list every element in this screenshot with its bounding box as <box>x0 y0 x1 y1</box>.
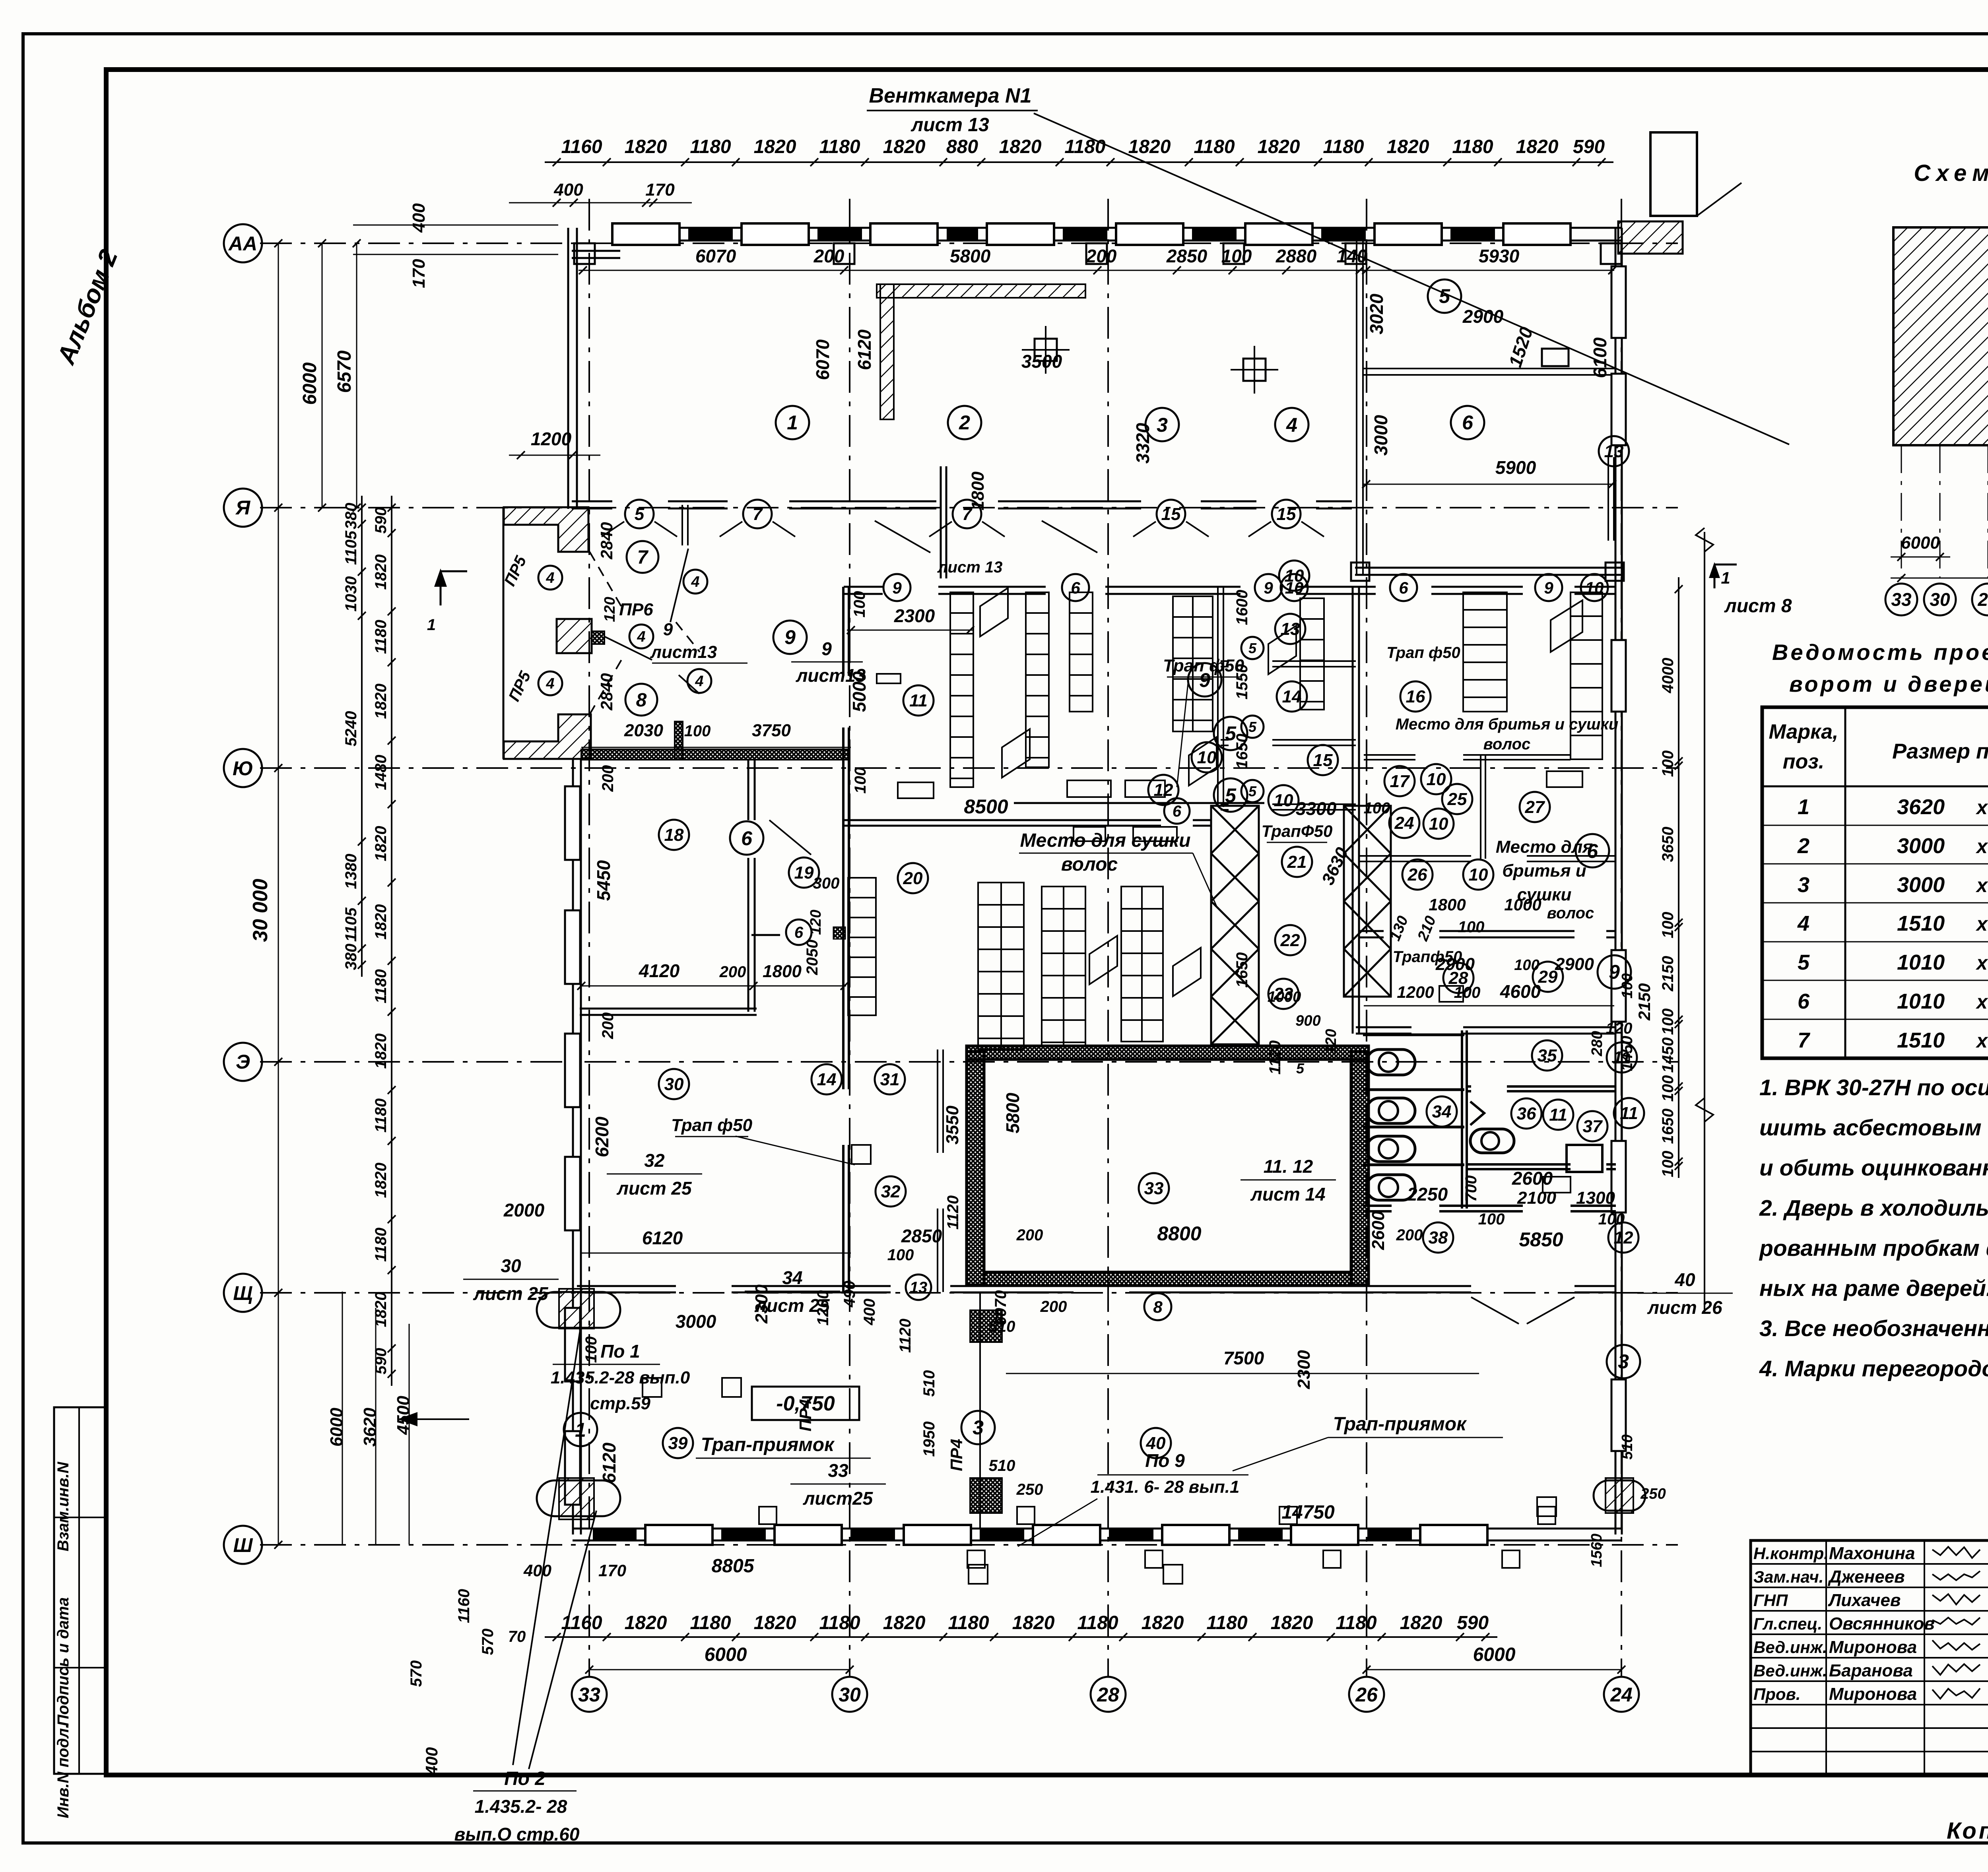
svg-text:1820: 1820 <box>754 1612 796 1633</box>
svg-text:28: 28 <box>1097 1684 1119 1706</box>
svg-text:8: 8 <box>1153 1298 1163 1316</box>
svg-text:7: 7 <box>753 504 763 524</box>
floor plan: entrance vestibule <box>504 507 588 552</box>
svg-text:2850: 2850 <box>1166 246 1208 266</box>
svg-text:1.435.2- 28: 1.435.2- 28 <box>475 1796 567 1817</box>
svg-text:8500: 8500 <box>964 795 1008 818</box>
svg-text:4: 4 <box>546 675 554 692</box>
svg-text:2000: 2000 <box>503 1200 545 1220</box>
svg-text:x: x <box>1975 991 1988 1013</box>
svg-text:14: 14 <box>1282 687 1302 706</box>
svg-text:590: 590 <box>372 507 390 534</box>
svg-text:5450: 5450 <box>593 860 614 901</box>
svg-text:x: x <box>1975 913 1988 935</box>
svg-text:1.431. 6- 28 вып.1: 1.431. 6- 28 вып.1 <box>1091 1477 1240 1497</box>
svg-text:10: 10 <box>1285 566 1304 586</box>
svg-text:1820: 1820 <box>754 136 796 157</box>
svg-text:1820: 1820 <box>1128 136 1171 157</box>
svg-text:3: 3 <box>1157 414 1168 436</box>
svg-text:Ш: Ш <box>233 1534 253 1556</box>
svg-text:1180: 1180 <box>819 1612 860 1633</box>
svg-text:9: 9 <box>821 638 832 659</box>
floor plan: dimensions and labels <box>553 158 561 166</box>
svg-text:570: 570 <box>479 1629 497 1655</box>
svg-text:34: 34 <box>782 1267 802 1288</box>
svg-text:12: 12 <box>1154 780 1173 800</box>
svg-text:5800: 5800 <box>950 246 991 266</box>
svg-text:1180: 1180 <box>819 136 860 157</box>
svg-text:лист 25: лист 25 <box>616 1178 692 1199</box>
svg-text:36: 36 <box>1517 1104 1536 1123</box>
svg-text:6: 6 <box>1071 578 1080 597</box>
svg-text:10: 10 <box>1197 748 1217 767</box>
svg-text:3620: 3620 <box>1897 795 1945 819</box>
svg-text:Инв.N подл.: Инв.N подл. <box>54 1724 72 1818</box>
svg-text:1820: 1820 <box>372 1163 390 1198</box>
svg-text:1: 1 <box>787 411 798 434</box>
svg-text:3320: 3320 <box>1132 423 1153 464</box>
svg-text:2. Дверь в холодильной каме: 2. Дверь в холодильной камере крепить к … <box>1759 1195 1988 1221</box>
svg-text:120: 120 <box>1606 1020 1633 1037</box>
svg-text:6: 6 <box>1173 803 1182 820</box>
svg-text:6000: 6000 <box>1901 533 1940 553</box>
svg-text:31: 31 <box>880 1070 900 1089</box>
svg-text:1820: 1820 <box>883 1612 926 1633</box>
svg-text:100: 100 <box>1659 751 1677 777</box>
svg-text:33: 33 <box>1891 589 1912 610</box>
svg-text:1820: 1820 <box>372 1292 390 1327</box>
svg-text:Трап ф50: Трап ф50 <box>1386 644 1460 662</box>
svg-text:5930: 5930 <box>1479 246 1520 266</box>
svg-text:490: 490 <box>841 1281 858 1308</box>
svg-text:1950: 1950 <box>920 1422 938 1457</box>
svg-text:2: 2 <box>1797 834 1809 858</box>
svg-text:280: 280 <box>1589 1031 1606 1056</box>
svg-text:Размер проема, мм: Размер проема, мм <box>1892 739 1988 763</box>
svg-text:По 2: По 2 <box>504 1768 546 1789</box>
svg-text:Н.контр.: Н.контр. <box>1753 1544 1829 1563</box>
svg-text:6120: 6120 <box>599 1442 619 1483</box>
svg-text:30: 30 <box>664 1075 684 1094</box>
svg-text:9: 9 <box>784 626 796 648</box>
svg-text:11. 12: 11. 12 <box>1264 1156 1313 1177</box>
svg-text:3000: 3000 <box>1897 834 1945 858</box>
svg-text:x: x <box>1975 952 1988 974</box>
svg-text:9: 9 <box>1544 578 1553 597</box>
svg-text:Место для бритья и сушки: Место для бритья и сушки <box>1396 716 1619 733</box>
svg-text:ТрапФ50: ТрапФ50 <box>1262 822 1333 840</box>
svg-text:x: x <box>1975 1030 1988 1052</box>
svg-text:5240: 5240 <box>342 711 360 747</box>
svg-text:Ю: Ю <box>233 757 253 780</box>
svg-text:лист 14: лист 14 <box>1250 1184 1325 1205</box>
svg-text:100: 100 <box>1478 1210 1505 1228</box>
svg-text:10: 10 <box>1274 791 1293 810</box>
svg-text:5: 5 <box>1439 285 1450 307</box>
svg-text:2100: 2100 <box>1517 1188 1556 1208</box>
svg-text:13: 13 <box>1604 442 1624 461</box>
svg-text:лист 26: лист 26 <box>1647 1297 1722 1318</box>
svg-text:лист 25: лист 25 <box>754 1295 830 1316</box>
svg-text:2840: 2840 <box>597 673 616 710</box>
svg-text:Венткамера N1: Венткамера N1 <box>869 84 1031 107</box>
svg-text:Вед.инж.: Вед.инж. <box>1753 1661 1827 1680</box>
svg-text:2300: 2300 <box>1294 1350 1314 1389</box>
svg-text:400: 400 <box>422 1747 441 1775</box>
svg-text:2880: 2880 <box>1276 246 1317 266</box>
svg-text:поз.: поз. <box>1783 750 1825 773</box>
svg-text:Марка,: Марка, <box>1769 720 1839 743</box>
floor plan: grid axes <box>224 224 262 262</box>
svg-text:лист 25: лист 25 <box>473 1283 549 1304</box>
svg-text:1820: 1820 <box>1387 136 1429 157</box>
svg-text:70: 70 <box>508 1628 526 1645</box>
svg-text:37: 37 <box>1583 1117 1603 1136</box>
svg-text:ных на раме дверей.: ных на раме дверей. <box>1759 1276 1988 1301</box>
svg-text:11: 11 <box>1549 1105 1567 1125</box>
svg-text:24: 24 <box>1610 1684 1633 1706</box>
svg-text:6: 6 <box>1462 411 1474 434</box>
svg-text:1180: 1180 <box>372 1228 390 1262</box>
svg-text:1180: 1180 <box>690 136 731 157</box>
svg-text:24: 24 <box>1394 813 1414 833</box>
svg-text:4600: 4600 <box>1500 981 1541 1002</box>
svg-text:1510: 1510 <box>1897 912 1945 935</box>
svg-text:Ведомость проемов: Ведомость проемов <box>1772 640 1988 665</box>
svg-text:3650: 3650 <box>1659 827 1677 862</box>
svg-text:Трап ф50: Трап ф50 <box>1163 656 1244 675</box>
svg-text:1: 1 <box>427 616 436 634</box>
svg-text:6070: 6070 <box>992 1290 1010 1326</box>
svg-text:6: 6 <box>1399 578 1408 597</box>
svg-text:200: 200 <box>1396 1226 1423 1244</box>
svg-text:1820: 1820 <box>625 1612 667 1633</box>
svg-text:100: 100 <box>1514 957 1539 974</box>
svg-text:7: 7 <box>637 547 649 568</box>
svg-text:1650: 1650 <box>1233 952 1251 988</box>
svg-text:3550: 3550 <box>943 1106 962 1145</box>
svg-text:250: 250 <box>1016 1481 1043 1498</box>
floor plan: shelving/equipment <box>950 592 973 787</box>
svg-text:2840: 2840 <box>597 522 616 559</box>
svg-text:14: 14 <box>817 1070 837 1089</box>
svg-text:21: 21 <box>1287 852 1307 872</box>
svg-text:200: 200 <box>813 246 845 266</box>
svg-text:Трап-приямок: Трап-приямок <box>701 1434 835 1455</box>
svg-text:4000: 4000 <box>1659 658 1677 694</box>
svg-text:120: 120 <box>602 597 618 622</box>
svg-text:33: 33 <box>1144 1179 1164 1198</box>
svg-text:1180: 1180 <box>372 1098 390 1133</box>
svg-text:2600: 2600 <box>1512 1168 1553 1189</box>
svg-text:2: 2 <box>959 411 970 434</box>
svg-text:100: 100 <box>1659 912 1677 939</box>
svg-text:12: 12 <box>1614 1228 1633 1247</box>
svg-text:Место для сушки: Место для сушки <box>1020 830 1191 851</box>
svg-text:лист13: лист13 <box>796 665 866 686</box>
svg-text:Зам.нач.: Зам.нач. <box>1753 1567 1823 1586</box>
svg-text:16: 16 <box>1406 687 1425 706</box>
svg-text:30: 30 <box>839 1684 861 1706</box>
svg-text:25: 25 <box>1447 790 1467 809</box>
svg-text:лист 8: лист 8 <box>1724 596 1792 617</box>
svg-text:Дженеев: Дженеев <box>1827 1567 1905 1587</box>
svg-text:2150: 2150 <box>1635 983 1654 1020</box>
svg-text:900: 900 <box>1295 1013 1320 1029</box>
svg-text:Щ: Щ <box>233 1282 252 1304</box>
svg-text:6000: 6000 <box>299 362 320 405</box>
svg-text:11: 11 <box>1620 1104 1638 1123</box>
svg-text:100: 100 <box>684 722 711 740</box>
svg-text:сушки: сушки <box>1517 885 1572 904</box>
svg-text:510: 510 <box>1619 1434 1636 1459</box>
svg-text:лист 13: лист 13 <box>911 114 989 136</box>
svg-text:100: 100 <box>1619 973 1636 998</box>
svg-text:1105: 1105 <box>342 907 360 942</box>
svg-text:100: 100 <box>851 591 868 618</box>
svg-text:26: 26 <box>1408 865 1427 885</box>
svg-text:2150: 2150 <box>1659 956 1677 992</box>
svg-text:33: 33 <box>578 1684 600 1706</box>
svg-text:5: 5 <box>1248 783 1257 799</box>
svg-text:1180: 1180 <box>372 969 390 1003</box>
svg-text:1180: 1180 <box>948 1612 989 1633</box>
floor plan: room number circles <box>776 406 809 439</box>
svg-text:6: 6 <box>1798 989 1810 1013</box>
svg-text:5: 5 <box>1248 719 1257 735</box>
svg-text:100: 100 <box>1659 1009 1677 1035</box>
svg-text:3620: 3620 <box>360 1408 380 1447</box>
svg-text:1200: 1200 <box>531 429 572 449</box>
svg-text:Трап-приямок: Трап-приямок <box>1333 1414 1468 1435</box>
svg-text:300: 300 <box>813 875 840 892</box>
svg-text:20: 20 <box>903 869 923 888</box>
svg-text:1820: 1820 <box>372 555 390 590</box>
svg-text:100: 100 <box>852 767 869 794</box>
svg-text:1180: 1180 <box>1194 136 1235 157</box>
svg-text:4: 4 <box>637 629 645 645</box>
svg-text:6: 6 <box>794 924 804 941</box>
svg-text:35: 35 <box>1538 1046 1557 1065</box>
svg-text:Миронова: Миронова <box>1829 1684 1917 1704</box>
svg-text:1160: 1160 <box>561 136 602 157</box>
svg-text:1010: 1010 <box>1897 989 1945 1013</box>
svg-text:1: 1 <box>1798 795 1809 819</box>
svg-text:вып.О стр.60: вып.О стр.60 <box>454 1824 579 1845</box>
svg-text:200: 200 <box>719 963 746 981</box>
svg-text:590: 590 <box>1573 136 1605 157</box>
svg-text:6000: 6000 <box>705 1644 747 1665</box>
svg-text:1480: 1480 <box>372 755 390 790</box>
svg-text:200: 200 <box>599 1013 617 1040</box>
svg-text:4120: 4120 <box>639 960 680 981</box>
svg-text:1820: 1820 <box>1516 136 1559 157</box>
svg-text:3000: 3000 <box>1371 415 1391 456</box>
svg-text:1180: 1180 <box>1206 1612 1248 1633</box>
svg-text:30: 30 <box>501 1255 521 1276</box>
svg-text:250: 250 <box>1640 1486 1666 1502</box>
svg-text:x: x <box>1975 835 1988 857</box>
svg-text:1800: 1800 <box>1429 895 1466 914</box>
svg-text:рованным пробкам ф50 l= 60: рованным пробкам ф50 l= 60 в местах обоз… <box>1759 1236 1988 1261</box>
svg-text:Я: Я <box>235 497 251 519</box>
svg-text:10: 10 <box>1429 814 1448 834</box>
svg-text:26: 26 <box>1355 1684 1378 1706</box>
svg-text:34: 34 <box>1432 1102 1452 1121</box>
svg-text:1800: 1800 <box>968 471 988 510</box>
svg-text:волос: волос <box>1547 904 1594 922</box>
svg-text:x: x <box>1975 874 1988 896</box>
svg-text:1180: 1180 <box>690 1612 731 1633</box>
svg-text:Гл.спец.: Гл.спец. <box>1753 1614 1822 1633</box>
svg-text:7: 7 <box>1798 1028 1811 1052</box>
svg-text:5850: 5850 <box>1519 1228 1563 1251</box>
svg-text:3300: 3300 <box>1296 798 1337 819</box>
svg-text:АА: АА <box>228 233 257 255</box>
svg-text:6120: 6120 <box>642 1228 683 1248</box>
svg-text:Овсянников: Овсянников <box>1829 1614 1935 1633</box>
svg-text:38: 38 <box>1429 1228 1448 1247</box>
svg-text:Копировал Кухтинова: Копировал Кухтинова <box>1947 1818 1988 1844</box>
svg-text:19: 19 <box>794 863 814 883</box>
svg-text:ворот и дверей: ворот и дверей <box>1789 671 1988 696</box>
svg-text:Трап ф50: Трап ф50 <box>671 1115 753 1135</box>
svg-text:волос: волос <box>1483 735 1531 753</box>
svg-text:30 000: 30 000 <box>249 879 272 942</box>
svg-text:3: 3 <box>1798 873 1809 897</box>
svg-text:6070: 6070 <box>812 339 833 380</box>
svg-text:120: 120 <box>1323 1029 1340 1054</box>
svg-text:100: 100 <box>887 1246 914 1264</box>
svg-text:Э: Э <box>236 1051 250 1073</box>
svg-text:4: 4 <box>1286 414 1297 436</box>
svg-text:1180: 1180 <box>1077 1612 1118 1633</box>
svg-text:100: 100 <box>1454 984 1481 1001</box>
svg-text:1200: 1200 <box>1397 983 1434 1001</box>
svg-text:1000: 1000 <box>1268 989 1301 1005</box>
svg-text:шить асбестовым картоном КА: шить асбестовым картоном КАОН-1- 5х1000х… <box>1759 1115 1988 1141</box>
svg-text:3: 3 <box>973 1416 984 1439</box>
svg-text:9: 9 <box>892 578 902 597</box>
svg-text:15: 15 <box>1313 751 1333 770</box>
svg-text:120: 120 <box>808 910 824 935</box>
svg-text:1820: 1820 <box>999 136 1042 157</box>
svg-text:1450: 1450 <box>1659 1038 1677 1073</box>
svg-text:7500: 7500 <box>1223 1348 1264 1368</box>
svg-text:лист25: лист25 <box>803 1488 874 1509</box>
svg-text:39: 39 <box>668 1434 688 1453</box>
svg-text:1820: 1820 <box>1258 136 1300 157</box>
svg-text:2030: 2030 <box>624 721 663 740</box>
svg-text:1820: 1820 <box>1271 1612 1313 1633</box>
svg-text:400: 400 <box>409 203 429 233</box>
svg-text:200: 200 <box>1016 1226 1043 1244</box>
svg-text:700: 700 <box>1462 1176 1480 1202</box>
svg-text:10: 10 <box>1427 770 1446 789</box>
svg-text:ПР6: ПР6 <box>619 600 653 619</box>
svg-text:1120: 1120 <box>944 1195 962 1230</box>
svg-text:ГНП: ГНП <box>1753 1591 1788 1610</box>
svg-text:1560: 1560 <box>1588 1534 1605 1567</box>
svg-text:200: 200 <box>1086 246 1117 266</box>
svg-text:2900: 2900 <box>1555 954 1594 974</box>
svg-text:лист13: лист13 <box>650 642 717 662</box>
svg-text:380: 380 <box>342 944 360 970</box>
svg-text:1030: 1030 <box>342 576 360 612</box>
svg-text:1180: 1180 <box>1323 136 1364 157</box>
svg-text:4: 4 <box>1797 912 1809 935</box>
svg-text:170: 170 <box>645 180 675 200</box>
svg-text:100: 100 <box>1221 246 1252 266</box>
floor plan: misc details <box>875 521 930 553</box>
svg-text:40: 40 <box>1674 1269 1695 1290</box>
svg-text:Взам.инв.N: Взам.инв.N <box>54 1461 72 1551</box>
svg-text:ПР4: ПР4 <box>947 1439 966 1471</box>
svg-text:По 9: По 9 <box>1145 1450 1185 1471</box>
svg-text:100: 100 <box>1458 918 1485 936</box>
svg-text:1800: 1800 <box>763 962 802 981</box>
svg-text:570: 570 <box>408 1661 425 1687</box>
svg-text:200: 200 <box>599 765 617 792</box>
svg-text:1820: 1820 <box>372 826 390 861</box>
svg-text:Лихачев: Лихачев <box>1828 1591 1901 1610</box>
svg-text:1120: 1120 <box>1266 1040 1284 1075</box>
svg-text:100: 100 <box>1598 1210 1625 1228</box>
svg-text:510: 510 <box>989 1457 1015 1474</box>
svg-text:3000: 3000 <box>1897 873 1945 897</box>
svg-text:8805: 8805 <box>712 1556 755 1577</box>
svg-text:9: 9 <box>663 620 673 639</box>
svg-text:1650: 1650 <box>1659 1109 1677 1144</box>
svg-text:1820: 1820 <box>1012 1612 1055 1633</box>
svg-text:4: 4 <box>691 574 699 590</box>
svg-text:1120: 1120 <box>897 1319 914 1353</box>
svg-text:1820: 1820 <box>372 684 390 719</box>
svg-text:100: 100 <box>1659 1151 1677 1178</box>
svg-text:Махонина: Махонина <box>1829 1544 1915 1563</box>
svg-text:3. Все необозначенные трапы: 3. Все необозначенные трапы ф 100. <box>1759 1316 1988 1341</box>
svg-text:По 1: По 1 <box>600 1341 640 1362</box>
svg-text:2050: 2050 <box>804 940 821 976</box>
svg-text:6200: 6200 <box>592 1116 612 1157</box>
svg-text:13: 13 <box>1281 619 1300 639</box>
svg-text:1820: 1820 <box>625 136 667 157</box>
svg-text:1820: 1820 <box>883 136 926 157</box>
svg-text:5: 5 <box>1798 951 1810 974</box>
svg-text:Миронова: Миронова <box>1829 1637 1917 1657</box>
svg-text:14750: 14750 <box>1281 1502 1335 1523</box>
svg-text:30: 30 <box>1930 589 1950 610</box>
svg-text:4: 4 <box>695 673 703 690</box>
svg-text:-0,750: -0,750 <box>776 1392 835 1415</box>
svg-text:Схематический план: Схематический план <box>1914 160 1988 186</box>
svg-text:4: 4 <box>546 570 554 586</box>
svg-text:1820: 1820 <box>1142 1612 1184 1633</box>
svg-text:бритья и: бритья и <box>1502 861 1586 881</box>
svg-text:1450: 1450 <box>1618 1036 1636 1071</box>
svg-text:5: 5 <box>1225 784 1237 807</box>
svg-text:590: 590 <box>1457 1612 1489 1633</box>
svg-text:3: 3 <box>1618 1350 1629 1373</box>
svg-text:1: 1 <box>1721 568 1730 587</box>
svg-text:11: 11 <box>909 691 928 710</box>
svg-text:Баранова: Баранова <box>1829 1661 1913 1680</box>
svg-text:510: 510 <box>920 1370 938 1397</box>
svg-text:Трапф50: Трапф50 <box>1393 948 1462 966</box>
svg-text:15: 15 <box>1161 504 1181 524</box>
svg-text:и обить оцинкованной сталью: и обить оцинкованной сталью δ=1,2 ммГОСТ… <box>1759 1155 1988 1181</box>
svg-text:1820: 1820 <box>1400 1612 1442 1633</box>
